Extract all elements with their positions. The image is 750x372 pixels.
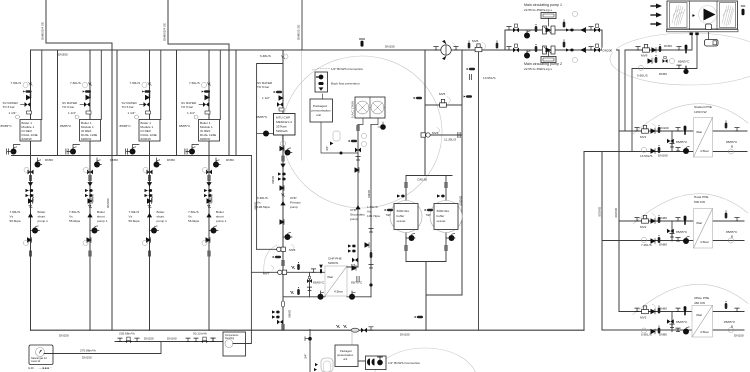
svg-text:DN80: DN80 <box>659 216 667 220</box>
svg-text:DN150: DN150 <box>598 207 602 217</box>
buffer header <box>406 175 452 177</box>
check valve <box>279 96 283 101</box>
svg-text:6.48L/S: 6.48L/S <box>260 54 271 58</box>
detail line <box>283 236 292 238</box>
valve MV5 rung <box>425 104 462 106</box>
svg-text:pressurisation: pressurisation <box>337 353 354 357</box>
svg-text:unit: unit <box>343 357 347 361</box>
svg-text:5.60L/S: 5.60L/S <box>641 333 652 337</box>
isolation valve <box>307 287 311 290</box>
pump cone <box>355 205 360 209</box>
svg-text:DN80: DN80 <box>659 333 667 337</box>
pipe <box>619 220 744 222</box>
svg-text:93.12m³/h: 93.12m³/h <box>193 332 207 336</box>
detail line <box>378 357 383 360</box>
symbol group <box>317 75 324 80</box>
svg-text:DN150: DN150 <box>106 198 110 208</box>
svg-text:85/65°C: 85/65°C <box>726 230 738 234</box>
svg-text:vessel: vessel <box>397 219 406 223</box>
svg-text:DN100: DN100 <box>659 126 669 130</box>
detail line <box>442 40 447 45</box>
box <box>667 1 738 29</box>
circle mark <box>699 6 717 24</box>
detail line <box>693 14 696 17</box>
valve MV8 <box>257 248 277 250</box>
svg-text:DN50: DN50 <box>110 158 118 162</box>
pipe CHP riser <box>282 50 284 330</box>
circle mark <box>277 247 281 251</box>
svg-text:MTU CHP: MTU CHP <box>276 116 290 120</box>
svg-text:pump: pump <box>350 217 358 221</box>
symbol group <box>319 265 323 274</box>
svg-text:DN100: DN100 <box>658 154 668 158</box>
pipe CHP return drop <box>250 156 252 331</box>
svg-text:3000 litre: 3000 litre <box>437 209 450 213</box>
detail line <box>580 28 586 33</box>
detail line <box>315 363 318 366</box>
isolation valve <box>369 327 373 330</box>
circle mark <box>278 270 282 274</box>
buffer vessel 1 <box>385 176 422 262</box>
sensor pocket <box>297 287 300 295</box>
pump 2 line symbols <box>507 40 600 63</box>
junction node <box>369 283 372 286</box>
pump <box>349 292 355 300</box>
flange <box>445 182 447 187</box>
circle mark <box>426 133 430 137</box>
mark <box>670 3 688 28</box>
svg-text:buffer: buffer <box>437 214 445 218</box>
detail line <box>667 30 739 32</box>
gauge <box>729 238 734 243</box>
svg-text:MV9: MV9 <box>641 54 648 58</box>
svg-text:Back flow prevention: Back flow prevention <box>331 82 360 86</box>
box <box>127 337 130 340</box>
check valve <box>352 266 356 271</box>
check valve <box>648 59 652 64</box>
valve <box>352 258 358 263</box>
isolation valve <box>507 27 511 30</box>
gauge <box>573 12 578 17</box>
svg-text:buffer: buffer <box>397 214 405 218</box>
svg-text:7.20L/S: 7.20L/S <box>641 243 652 247</box>
detail line <box>330 142 333 146</box>
pump <box>449 233 455 241</box>
svg-text:500 KW: 500 KW <box>694 200 705 204</box>
svg-text:14.50L/S: 14.50L/S <box>640 154 652 158</box>
box <box>515 24 518 27</box>
svg-text:DN150: DN150 <box>418 178 428 182</box>
pipe CHP bypass left <box>257 64 283 250</box>
detail line <box>580 48 586 53</box>
box <box>515 44 518 47</box>
isolation valve <box>311 269 315 272</box>
pipe flow riser DN150 <box>618 50 620 312</box>
flange <box>282 324 284 329</box>
pipe AHU flow riser <box>624 50 626 131</box>
svg-text:1.54L/S: 1.54L/S <box>367 205 378 209</box>
detail line <box>672 5 685 26</box>
box <box>602 48 616 53</box>
svg-text:3/4": 3/4" <box>325 146 329 151</box>
sensor pocket <box>535 44 538 52</box>
mark <box>695 33 698 36</box>
bottom return header <box>31 329 585 331</box>
test point <box>385 209 393 212</box>
detail line <box>406 237 415 239</box>
sensor pocket <box>655 55 658 63</box>
check valve <box>355 168 359 173</box>
detail line <box>651 23 657 25</box>
isolation valve <box>589 47 593 50</box>
svg-text:CHP: CHP <box>290 196 297 200</box>
valve <box>277 320 283 325</box>
cloud bottom BCWS <box>373 348 477 372</box>
svg-text:4.5bar: 4.5bar <box>700 330 709 334</box>
test point <box>425 209 433 212</box>
detail line <box>358 103 382 112</box>
pipe gas main <box>115 341 223 343</box>
svg-text:13.55L/S: 13.55L/S <box>483 76 495 80</box>
box <box>543 46 547 54</box>
packaged pressurisation unit top <box>321 94 358 153</box>
gauge <box>283 54 288 59</box>
commissioning set <box>278 172 286 175</box>
box <box>596 44 599 47</box>
svg-text:DN50: DN50 <box>664 44 672 48</box>
svg-text:B: B <box>731 145 733 149</box>
svg-text:DN50: DN50 <box>659 72 667 76</box>
valve <box>594 28 600 33</box>
circle mark <box>371 101 384 114</box>
boiler 2 <box>60 50 117 330</box>
svg-text:22.55 l/s 35kPa kg s: 22.55 l/s 35kPa kg s <box>524 8 552 12</box>
check valve <box>652 48 656 53</box>
AHU box <box>651 1 745 46</box>
symbol group <box>663 56 668 63</box>
symbol group <box>319 87 324 90</box>
BCWS connection unit <box>358 360 366 362</box>
cloud office PHE <box>633 284 748 314</box>
gauge <box>729 149 734 154</box>
box <box>692 306 713 338</box>
svg-text:Office PHE: Office PHE <box>694 296 709 300</box>
strainer <box>351 328 359 332</box>
flange <box>282 156 284 161</box>
svg-text:meter kit: meter kit <box>31 360 41 363</box>
pipe return riser DN150 <box>601 152 603 331</box>
box <box>694 118 713 158</box>
test point <box>414 97 422 100</box>
svg-text:DN150: DN150 <box>734 334 744 338</box>
detail line <box>292 245 295 250</box>
flange <box>357 125 359 130</box>
box <box>29 345 53 365</box>
svg-text:DN200: DN200 <box>603 49 613 53</box>
PHE branch valve set <box>635 306 689 335</box>
pump 1 line symbols <box>507 12 600 39</box>
flange <box>282 260 284 265</box>
svg-text:0.A.C 17KW: 0.A.C 17KW <box>351 101 355 118</box>
main header DN150 <box>31 49 620 51</box>
CHP primary pump stack <box>281 141 286 146</box>
packaged pressurisation unit bottom <box>335 345 358 367</box>
detail line <box>692 306 713 338</box>
detail line <box>546 48 552 53</box>
boiler 3 <box>120 50 177 330</box>
test point <box>464 95 472 98</box>
PHE branch valve set <box>635 215 689 244</box>
isolation valve <box>369 265 373 268</box>
detail line <box>351 330 353 346</box>
pipe DN200 drop <box>461 50 463 295</box>
svg-text:DN200: DN200 <box>459 196 463 206</box>
buffer bottom header <box>406 261 446 263</box>
test point <box>274 91 282 94</box>
svg-text:DN150: DN150 <box>59 334 69 338</box>
isolation valve <box>507 47 511 50</box>
cloud boundary <box>264 245 277 274</box>
isolation valve <box>677 65 681 68</box>
flange <box>357 276 359 281</box>
pump <box>409 233 415 241</box>
svg-text:11.35L/S: 11.35L/S <box>444 138 456 142</box>
svg-text:vessel: vessel <box>437 219 446 223</box>
svg-text:270.88m³/h: 270.88m³/h <box>80 349 96 353</box>
detail line <box>39 350 42 354</box>
detail line <box>544 27 551 33</box>
riser DN80 top-left 1 <box>45 0 47 43</box>
test point <box>415 316 423 319</box>
isolation valve <box>677 47 681 50</box>
circle mark <box>225 340 233 348</box>
svg-text:22.55 l/s 35kPa kg s: 22.55 l/s 35kPa kg s <box>524 67 552 71</box>
detail line <box>314 368 317 371</box>
svg-text:MV5: MV5 <box>439 92 446 96</box>
svg-text:5W: 5W <box>426 213 431 217</box>
svg-text:3bar: 3bar <box>327 275 333 279</box>
motorised valve <box>440 99 447 107</box>
pipe AHU return riser <box>631 69 633 152</box>
isolation valve <box>118 338 122 341</box>
detail line <box>546 28 552 33</box>
detail line <box>369 97 371 118</box>
svg-text:DN80: DN80 <box>659 243 667 247</box>
pump <box>285 148 291 156</box>
pump <box>285 232 291 240</box>
box <box>551 26 555 34</box>
test point <box>349 140 357 143</box>
test point <box>273 256 281 259</box>
svg-text:85/65°C: 85/65°C <box>313 281 325 285</box>
svg-text:DN50: DN50 <box>45 158 53 162</box>
pressurisation connection <box>309 330 311 372</box>
svg-text:DN150: DN150 <box>385 45 395 49</box>
box <box>421 133 425 137</box>
pipe AHU flow <box>625 34 692 50</box>
pipe <box>405 176 407 262</box>
valve tick <box>281 194 284 197</box>
detail line <box>447 97 450 104</box>
svg-text:235.68m³/h: 235.68m³/h <box>119 332 135 336</box>
pipe return <box>584 151 747 153</box>
sensor right <box>741 6 745 15</box>
PHE branch valve set <box>635 125 689 154</box>
svg-text:MV3: MV3 <box>640 316 647 320</box>
svg-text:CHP: CHP <box>350 208 357 212</box>
detail line <box>445 45 447 55</box>
back flow prevention unit <box>315 72 328 92</box>
isolation valve <box>454 47 458 50</box>
riser DN80/2 SE center <box>301 0 303 50</box>
pipe return collector <box>583 152 585 331</box>
svg-text:DN80: DN80 <box>288 310 292 318</box>
svg-text:DN80/2/4 SE: DN80/2/4 SE <box>163 23 167 41</box>
detail line <box>694 209 713 249</box>
detail line <box>305 337 310 341</box>
CHP riser lower symbols <box>282 301 285 307</box>
secondary symbols <box>362 134 367 139</box>
svg-text:DN80: DN80 <box>659 307 667 311</box>
mark <box>720 3 736 28</box>
svg-text:DN100: DN100 <box>167 337 177 341</box>
symbol group <box>685 45 688 53</box>
svg-text:MV1: MV1 <box>640 135 647 139</box>
svg-text:3/4": 3/4" <box>304 354 308 359</box>
detail line <box>288 152 293 154</box>
valve <box>594 48 600 53</box>
symbol group <box>318 82 323 85</box>
detail line <box>482 43 486 50</box>
svg-text:DN50: DN50 <box>226 158 234 162</box>
svg-text:Student PHE: Student PHE <box>694 105 712 109</box>
junction node <box>308 337 312 341</box>
valve tick <box>343 325 346 328</box>
box <box>366 356 387 370</box>
sensor pocket <box>725 301 728 309</box>
svg-text:1 1/2": 1 1/2" <box>262 96 270 100</box>
cloud student PHE <box>633 104 748 134</box>
label leader curls <box>271 43 655 311</box>
box <box>541 57 556 63</box>
flange <box>458 132 460 137</box>
circle mark <box>441 45 451 55</box>
commissioning set <box>397 194 405 197</box>
check valve <box>280 186 284 191</box>
check valve <box>280 220 284 225</box>
box <box>333 131 340 141</box>
svg-text:357kwe: 357kwe <box>276 125 287 129</box>
svg-text:CHP PHE: CHP PHE <box>328 257 342 261</box>
CHP secondary riser B <box>370 125 372 297</box>
CHP unit box U1 <box>274 114 296 136</box>
detail line <box>257 133 274 135</box>
valve <box>355 148 361 153</box>
circle mark <box>430 201 462 233</box>
valve <box>361 328 367 333</box>
detail line <box>704 9 716 21</box>
svg-text:460 KW: 460 KW <box>694 301 705 305</box>
pump <box>524 31 530 39</box>
isolation valve <box>369 229 373 232</box>
detail line <box>125 340 132 343</box>
junction node <box>340 152 343 155</box>
mark <box>690 33 693 36</box>
valve MV4 rung <box>425 134 462 136</box>
valve <box>513 28 519 33</box>
supply arrows <box>651 5 657 7</box>
valve <box>277 102 283 107</box>
pipe <box>478 50 480 330</box>
commissioning set <box>566 28 574 31</box>
box <box>355 97 385 118</box>
sensor pocket <box>659 44 662 52</box>
motorised valve <box>475 44 482 52</box>
detail line <box>526 50 528 52</box>
pipe <box>619 311 744 313</box>
svg-text:520kwth: 520kwth <box>276 129 288 133</box>
box <box>310 99 333 122</box>
svg-text:1/2" BCWS Connection: 1/2" BCWS Connection <box>388 361 420 365</box>
mark <box>543 58 554 61</box>
svg-text:520KW: 520KW <box>328 261 338 265</box>
pipe <box>602 240 744 242</box>
pipe flow <box>619 130 747 132</box>
dry air cooler <box>351 97 386 130</box>
detail line <box>585 48 587 53</box>
commissioning set <box>278 177 286 180</box>
svg-text:Primary: Primary <box>290 201 301 205</box>
valve 3-way MV7 <box>434 47 438 50</box>
pump <box>524 51 530 59</box>
box <box>694 209 713 249</box>
detail line <box>351 291 353 293</box>
sensor pockets <box>468 41 471 49</box>
svg-text:pressurisation: pressurisation <box>312 109 332 113</box>
svg-text:DN80: DN80 <box>271 176 275 184</box>
gas pressure reduction set <box>194 337 215 343</box>
sensor pocket <box>563 20 566 28</box>
svg-text:100.7kpa: 100.7kpa <box>367 214 380 218</box>
svg-text:4.5bar: 4.5bar <box>700 240 709 244</box>
gauge <box>729 328 734 333</box>
svg-text:MV4: MV4 <box>432 131 439 135</box>
gauge <box>573 58 578 63</box>
svg-text:1/2" BCWS Connection: 1/2" BCWS Connection <box>331 67 363 71</box>
svg-text:TO 6 bar: TO 6 bar <box>257 85 269 89</box>
symbol group <box>683 66 688 74</box>
detail line <box>548 19 550 27</box>
box <box>541 13 556 19</box>
drop DN150 long <box>111 43 113 330</box>
detail line <box>378 122 383 127</box>
detail line <box>325 266 347 296</box>
commissioning set <box>348 249 356 252</box>
buffer vessel 2 <box>425 176 462 262</box>
gauge <box>670 59 675 64</box>
detail line <box>526 30 528 32</box>
svg-text:DN80/2 SE: DN80/2 SE <box>297 25 301 40</box>
header flow 2 <box>168 44 229 156</box>
pump loop pipe <box>505 30 602 50</box>
junction node <box>377 360 383 366</box>
svg-text:DN80/2/4 SE: DN80/2/4 SE <box>41 22 45 40</box>
svg-text:1150 KW: 1150 KW <box>694 110 707 114</box>
sensor pocket <box>370 250 373 258</box>
commissioning set <box>272 315 280 318</box>
svg-text:DN65: DN65 <box>367 190 371 198</box>
svg-text:MV2: MV2 <box>640 225 647 229</box>
